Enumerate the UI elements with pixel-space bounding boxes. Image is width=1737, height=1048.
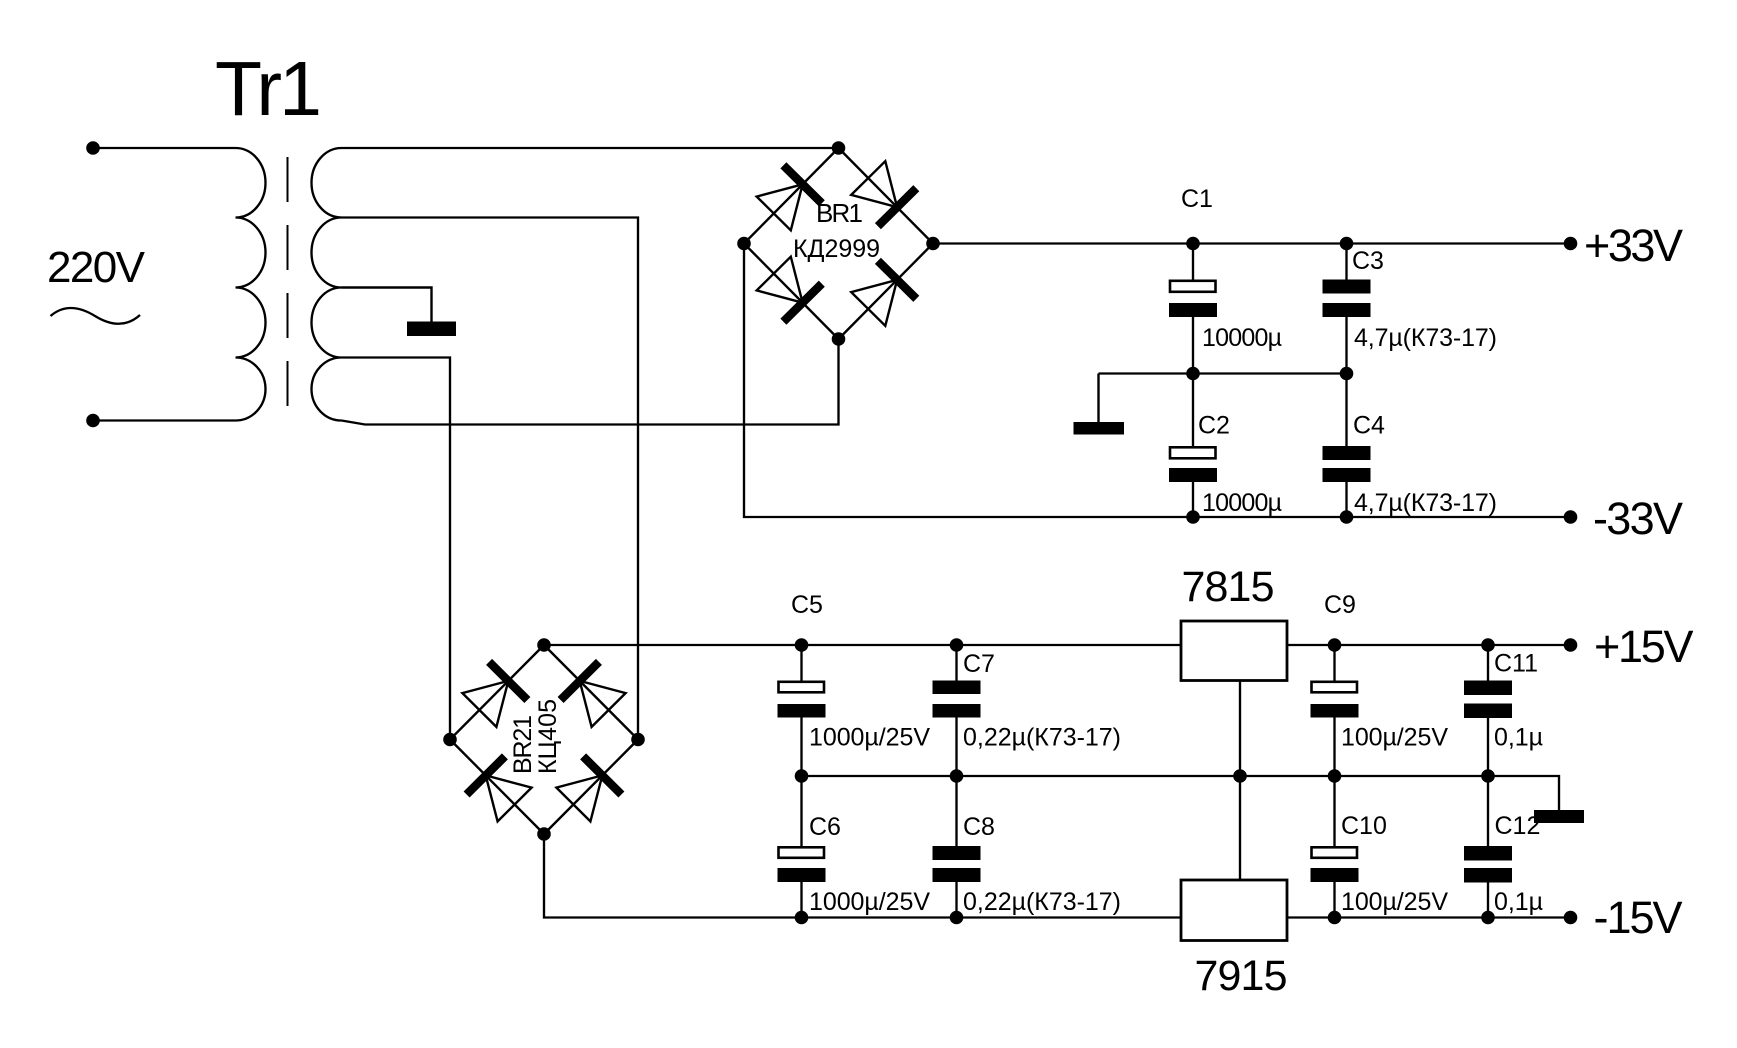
svg-text:-33V: -33V: [1593, 493, 1683, 544]
node C10 bottom: [1328, 911, 1342, 925]
node C11 top: [1481, 638, 1495, 652]
svg-text:КД2999: КД2999: [793, 235, 880, 263]
diode BR21 D1: [462, 662, 527, 727]
capacitor C6: [778, 776, 826, 918]
node C12 bottom: [1481, 911, 1495, 925]
node C1 top: [1186, 237, 1200, 251]
wire secondary tap2 to BR21 right: [342, 218, 639, 740]
capacitor C10: [1311, 776, 1359, 918]
svg-text:КЦ405: КЦ405: [534, 699, 562, 774]
svg-text:10000µ: 10000µ: [1202, 489, 1282, 517]
svg-text:+33V: +33V: [1584, 220, 1683, 271]
transformer Tr1 secondary winding: [312, 148, 342, 421]
node primary terminal top: [86, 141, 100, 155]
wire +15V rail right: [1287, 644, 1565, 646]
node terminal +33V: [1564, 237, 1578, 251]
svg-text:7915: 7915: [1195, 952, 1288, 1000]
wire upper mid: [1099, 372, 1347, 374]
svg-text:100µ/25V: 100µ/25V: [1341, 888, 1448, 916]
node C7-C8 mid: [950, 769, 964, 783]
node C2 bottom: [1186, 510, 1200, 524]
capacitor C3: [1323, 244, 1371, 374]
svg-text:0,1µ: 0,1µ: [1494, 724, 1543, 752]
wire primary bottom: [93, 419, 236, 421]
svg-text:C10: C10: [1341, 812, 1387, 840]
svg-text:C9: C9: [1324, 591, 1356, 619]
svg-text:1000µ/25V: 1000µ/25V: [809, 888, 930, 916]
svg-text:1000µ/25V: 1000µ/25V: [809, 724, 930, 752]
node C9-C10 mid: [1328, 769, 1342, 783]
svg-text:C8: C8: [963, 813, 995, 841]
node primary terminal bottom: [86, 414, 100, 428]
svg-text:7815: 7815: [1182, 563, 1275, 611]
diode BR21 D3: [467, 756, 532, 821]
ground lower mid: [1534, 810, 1584, 823]
capacitor C9: [1311, 645, 1359, 776]
bridge rectifier BR1 diamond: [744, 148, 933, 339]
svg-text:C12: C12: [1495, 812, 1541, 840]
node terminal -33V: [1564, 510, 1578, 524]
node BR21 left: [443, 733, 457, 747]
svg-text:0,22µ(К73-17): 0,22µ(К73-17): [963, 724, 1121, 752]
wire +15V rail left: [544, 644, 1181, 646]
diode BR21 D4: [556, 756, 621, 821]
svg-text:C4: C4: [1353, 412, 1385, 440]
svg-text:0,1µ: 0,1µ: [1494, 888, 1543, 916]
node C5-C6 mid: [795, 769, 809, 783]
node C3-C4 mid: [1340, 367, 1354, 381]
capacitor C5: [778, 645, 826, 776]
capacitor C4: [1323, 374, 1371, 518]
svg-text:4,7µ(К73-17): 4,7µ(К73-17): [1354, 324, 1497, 352]
capacitor C1: [1169, 244, 1217, 374]
svg-text:C6: C6: [809, 813, 841, 841]
svg-text:C7: C7: [963, 650, 995, 678]
node C4 bottom: [1340, 510, 1354, 524]
svg-text:100µ/25V: 100µ/25V: [1341, 724, 1448, 752]
svg-text:-15V: -15V: [1594, 892, 1683, 943]
node C6 bottom: [795, 911, 809, 925]
diode BR1 D4: [851, 261, 916, 326]
node C1-C2 mid: [1186, 367, 1200, 381]
node BR1 bottom: [832, 332, 846, 346]
svg-text:10000µ: 10000µ: [1202, 324, 1282, 352]
wire 7815 ground pin to 7915: [1239, 681, 1241, 881]
svg-text:C2: C2: [1198, 412, 1230, 440]
wire upper mid ground stub: [1097, 374, 1099, 423]
wire secondary bottom to BR1 bottom: [342, 339, 839, 425]
capacitor C11: [1464, 645, 1512, 776]
transformer Tr1 core: [287, 157, 289, 406]
wire +33V rail: [933, 242, 1565, 244]
node C5 top: [795, 638, 809, 652]
node C8 bottom: [950, 911, 964, 925]
wire lower mid rail: [802, 776, 1560, 810]
svg-text:4,7µ(К73-17): 4,7µ(К73-17): [1354, 489, 1497, 517]
svg-text:BR21: BR21: [509, 715, 537, 774]
svg-text:+15V: +15V: [1594, 621, 1694, 672]
transformer Tr1 primary winding: [236, 148, 266, 421]
ground upper mid: [1074, 422, 1125, 435]
capacitor C12: [1464, 776, 1512, 918]
node BR1 top: [832, 141, 846, 155]
node BR1 right: [926, 237, 940, 251]
capacitor C7: [933, 645, 981, 776]
wire secondary center tap to ground: [342, 288, 432, 323]
svg-text:C3: C3: [1352, 247, 1384, 275]
wire secondary top to BR1: [342, 147, 839, 149]
diode BR21 D2: [561, 662, 626, 727]
svg-text:C11: C11: [1494, 650, 1538, 678]
svg-text:0,22µ(К73-17): 0,22µ(К73-17): [963, 888, 1121, 916]
node terminal +15V: [1564, 638, 1578, 652]
node BR21 bottom: [537, 827, 551, 841]
node BR21 right: [631, 733, 645, 747]
diode BR1 D2: [851, 161, 916, 226]
diode BR1 D1: [757, 165, 822, 230]
capacitor C2: [1169, 374, 1217, 518]
ground secondary center tap: [407, 322, 456, 337]
node BR1 left: [737, 237, 751, 251]
wire BR1 left to -33V rail: [744, 244, 1565, 518]
wire -15V rail left: [544, 834, 1181, 918]
regulator U1 7815: [1181, 621, 1287, 681]
regulator U2 7915: [1181, 880, 1287, 941]
node BR21 top: [537, 638, 551, 652]
bridge rectifier BR21 diamond: [450, 645, 638, 834]
node C11-C12 mid: [1481, 769, 1495, 783]
svg-text:220V: 220V: [47, 243, 146, 292]
node C9 top: [1328, 638, 1342, 652]
node regulators ground: [1233, 769, 1247, 783]
source AC sine symbol: [51, 308, 141, 324]
svg-text:BR1: BR1: [816, 198, 863, 228]
diode BR1 D3: [757, 257, 822, 322]
wire secondary tap3 to BR21 left: [342, 358, 451, 740]
svg-text:C5: C5: [791, 591, 823, 619]
node C3 top: [1340, 237, 1354, 251]
node terminal -15V: [1564, 911, 1578, 925]
node C7 top: [950, 638, 964, 652]
wire primary top: [93, 147, 236, 149]
wire -15V rail right: [1287, 916, 1565, 918]
capacitor C8: [933, 776, 981, 918]
svg-text:Tr1: Tr1: [215, 46, 322, 132]
svg-text:C1: C1: [1181, 185, 1213, 213]
